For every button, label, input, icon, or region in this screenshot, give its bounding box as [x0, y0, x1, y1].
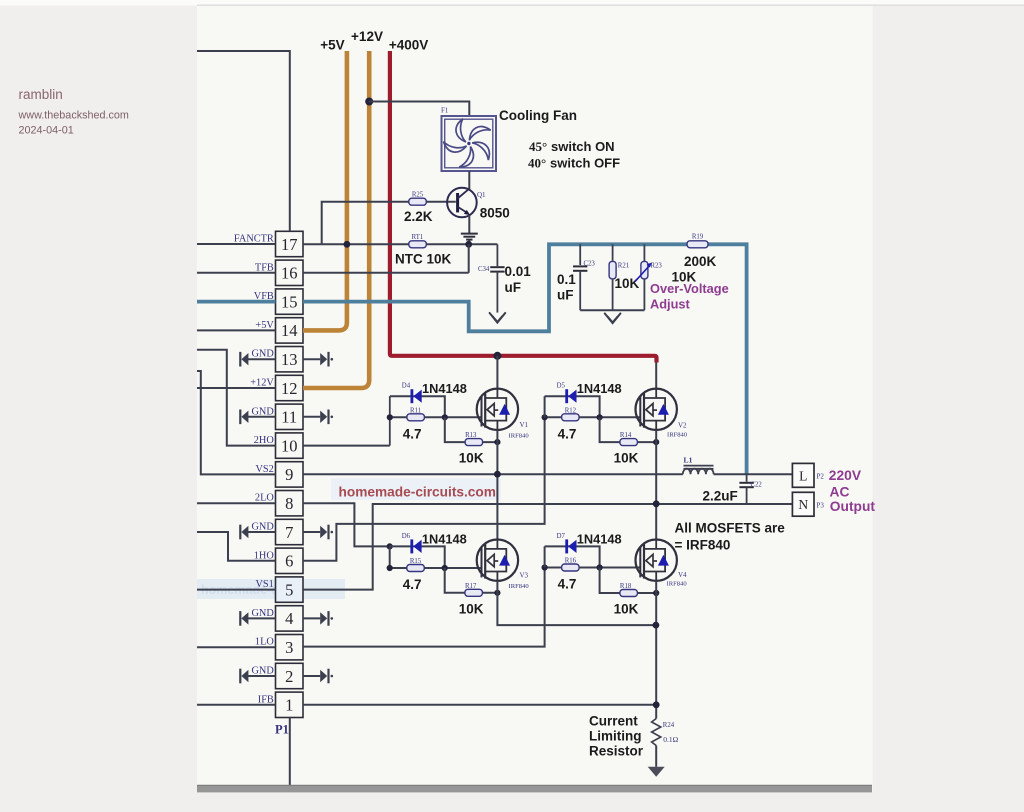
svg-text:V1: V1 — [520, 421, 529, 429]
svg-text:40°: 40° — [528, 156, 546, 171]
wire +12V rail — [303, 51, 369, 388]
svg-text:homemade-circuits.com: homemade-circuits.com — [339, 485, 496, 500]
svg-text:6: 6 — [285, 552, 293, 571]
svg-text:C34: C34 — [478, 266, 490, 273]
svg-text:R13: R13 — [465, 432, 477, 439]
svg-text:switch ON: switch ON — [551, 139, 615, 154]
svg-text:200K: 200K — [684, 254, 717, 269]
capacitor C23 — [573, 244, 587, 310]
wire D6 branch — [390, 546, 445, 568]
svg-text:2LO: 2LO — [255, 493, 274, 504]
wire D5 branch — [545, 396, 600, 417]
mosfet V4 IRF840 — [636, 540, 677, 581]
svg-text:R15: R15 — [410, 558, 422, 565]
wire fan feed — [369, 102, 469, 117]
wire N rail — [303, 504, 792, 590]
mosfet V3 IRF840 — [477, 540, 518, 581]
resistor R17 10K — [465, 589, 483, 596]
wire FANCTR to RT1 — [322, 243, 409, 245]
wire R18 branch — [600, 568, 657, 594]
svg-text:5: 5 — [285, 580, 293, 599]
svg-text:R12: R12 — [565, 407, 577, 414]
svg-text:F1: F1 — [441, 107, 449, 115]
svg-text:+12V: +12V — [250, 378, 274, 389]
wire R25 to Q1 base — [426, 201, 456, 203]
svg-text:FANCTR: FANCTR — [234, 234, 274, 245]
svg-text:17: 17 — [281, 235, 298, 254]
wire V2 drain — [655, 362, 657, 389]
svg-text:11: 11 — [281, 408, 297, 427]
resistor R18 10K — [620, 590, 638, 597]
wire R24 to ground — [655, 746, 657, 767]
svg-text:Limiting: Limiting — [589, 729, 642, 744]
mosfet V1 IRF840 — [477, 389, 518, 430]
junction +400V to V1 drain — [493, 352, 501, 360]
junction +12V to fan — [365, 98, 373, 106]
junction IFB shunt — [653, 701, 660, 708]
wire V4 lv top — [544, 546, 546, 567]
ground Q1 emitter — [461, 234, 478, 240]
junction R18 source — [653, 590, 659, 596]
watermark band website — [331, 479, 501, 501]
svg-text:10K: 10K — [615, 276, 640, 291]
svg-text:8: 8 — [285, 494, 293, 513]
svg-text:All MOSFETS are: All MOSFETS are — [675, 521, 786, 536]
svg-text:Output: Output — [830, 499, 876, 514]
diode D4 1N4148 — [411, 389, 422, 403]
svg-text:D6: D6 — [402, 533, 411, 540]
inductor L1 — [683, 466, 714, 475]
wire V1 source — [496, 430, 498, 474]
ground pin2 left arrow — [239, 666, 275, 684]
svg-text:+12V: +12V — [351, 29, 383, 44]
resistor R21 — [612, 244, 614, 262]
svg-text:P1: P1 — [275, 723, 289, 737]
svg-text:L1: L1 — [684, 456, 693, 465]
svg-text:R11: R11 — [410, 407, 421, 414]
svg-text:Over-Voltage: Over-Voltage — [650, 281, 729, 296]
svg-text:R14: R14 — [620, 432, 632, 439]
svg-text:14: 14 — [281, 321, 298, 340]
diode D5 1N4148 — [565, 389, 576, 403]
svg-text:D4: D4 — [402, 383, 411, 390]
svg-text:Cooling Fan: Cooling Fan — [499, 108, 577, 123]
resistor R24 zigzag — [652, 719, 661, 746]
junction V2 source / V4 drain — [653, 500, 660, 507]
junction R15 right — [442, 565, 448, 571]
svg-text:1N4148: 1N4148 — [422, 531, 467, 546]
svg-text:P2: P2 — [817, 473, 825, 481]
svg-text:IFB: IFB — [258, 694, 274, 705]
resistor R11 4.7 — [407, 414, 425, 421]
svg-text:7: 7 — [285, 523, 293, 542]
svg-text:+5V: +5V — [320, 38, 344, 53]
svg-text:2.2uF: 2.2uF — [703, 489, 738, 504]
svg-text:0.01: 0.01 — [505, 264, 532, 279]
wire V3 lv — [389, 546, 391, 568]
junction sources join — [653, 622, 660, 629]
wire VFB blue loop — [303, 244, 747, 474]
junction R14 source — [653, 439, 659, 445]
svg-text:1N4148: 1N4148 — [577, 381, 622, 396]
svg-text:12: 12 — [281, 379, 298, 398]
svg-text:15: 15 — [281, 292, 298, 311]
svg-text:4.7: 4.7 — [558, 426, 577, 441]
capacitor C34 — [490, 244, 504, 312]
junction R13 source — [494, 439, 500, 445]
connector P1 pin numbers — [281, 235, 298, 715]
wire L1 to L terminal — [714, 473, 793, 475]
wire pin3 stub — [197, 646, 276, 648]
svg-text:L: L — [799, 468, 807, 483]
svg-text:IRF840: IRF840 — [667, 581, 688, 588]
svg-text:V4: V4 — [678, 571, 687, 579]
wire +400V rail — [390, 51, 657, 363]
svg-text:VS1: VS1 — [255, 579, 273, 590]
svg-text:D7: D7 — [557, 533, 566, 540]
wire 1LO to gate V4 — [303, 568, 545, 647]
svg-text:+400V: +400V — [389, 38, 428, 53]
svg-text:10: 10 — [281, 436, 298, 455]
wire D7 branch — [545, 546, 600, 567]
svg-text:R24: R24 — [663, 722, 675, 729]
svg-text:2HO: 2HO — [254, 435, 275, 446]
wire gate line R16 — [545, 567, 641, 569]
ground pin13 left arrow — [239, 349, 275, 367]
resistor R19 — [687, 241, 708, 248]
svg-text:C23: C23 — [584, 261, 596, 268]
wire gate line R11 — [390, 416, 482, 418]
svg-text:2.2K: 2.2K — [404, 209, 433, 224]
svg-text:10K: 10K — [459, 601, 484, 616]
ground pin11 right arrow — [303, 410, 333, 425]
wire Q1 emitter down — [468, 215, 470, 233]
resistor R14 10K — [620, 439, 638, 446]
wire 2HO route from left — [197, 350, 276, 446]
watermark band pin5 row — [197, 579, 345, 599]
svg-text:10K: 10K — [614, 602, 639, 617]
diode D6 1N4148 — [410, 539, 421, 553]
wire V4 drain — [655, 504, 657, 540]
diode D7 1N4148 — [565, 539, 576, 553]
ground pin11 left arrow — [239, 406, 275, 424]
svg-text:16: 16 — [281, 264, 298, 283]
svg-text:uF: uF — [505, 280, 522, 295]
terminal L P2 — [792, 463, 814, 487]
wire VS2 rail — [303, 473, 683, 475]
wire pin17 stub — [197, 243, 276, 245]
svg-text:R18: R18 — [620, 583, 632, 590]
svg-text:Adjust: Adjust — [650, 297, 691, 312]
svg-text:TFB: TFB — [255, 262, 274, 273]
svg-text:Q1: Q1 — [477, 191, 486, 199]
svg-text:GND: GND — [251, 349, 274, 360]
svg-text:GND: GND — [251, 522, 274, 533]
svg-text:RT1: RT1 — [412, 234, 424, 241]
svg-text:IRF840: IRF840 — [509, 583, 530, 590]
wire VS2 route from left — [197, 371, 276, 474]
wire D4 branch — [390, 396, 445, 417]
svg-text:www.thebackshed.com: www.thebackshed.com — [18, 110, 129, 122]
svg-text:IRF840: IRF840 — [667, 432, 688, 439]
resistor R15 4.7 — [407, 565, 425, 572]
svg-text:Current: Current — [589, 714, 638, 729]
fan F1 — [441, 116, 496, 171]
wire pin15 VFB stub (blue) — [197, 300, 276, 304]
svg-text:D5: D5 — [557, 383, 566, 390]
wire pin14 stub — [197, 329, 276, 331]
wire V3 source — [497, 581, 656, 625]
thermistor RT1 — [409, 241, 427, 248]
wire pin16 stub — [197, 272, 276, 274]
svg-text:4: 4 — [285, 609, 293, 628]
wire pin12 stub — [197, 387, 276, 389]
svg-text:1: 1 — [285, 696, 293, 715]
svg-text:4.7: 4.7 — [558, 577, 577, 592]
svg-text:2024-04-01: 2024-04-01 — [19, 125, 74, 137]
junction R12 left — [542, 414, 548, 420]
svg-text:1HO: 1HO — [254, 550, 275, 561]
junction R16 left — [542, 564, 548, 570]
resistor R16 4.7 — [562, 564, 580, 571]
junction R11 left — [387, 414, 393, 420]
wire R17 branch — [445, 568, 498, 593]
svg-text:1N4148: 1N4148 — [422, 381, 467, 396]
svg-text:0.1: 0.1 — [557, 272, 576, 287]
ground C34 — [490, 313, 506, 322]
svg-text:GND: GND — [251, 608, 274, 619]
svg-text:220V: 220V — [829, 468, 862, 483]
svg-text:= IRF840: = IRF840 — [675, 538, 731, 553]
wire OV bottom — [580, 309, 644, 311]
junction V1 source / V3 drain — [494, 471, 501, 478]
svg-text:V3: V3 — [520, 572, 529, 580]
ground pin4 left arrow — [239, 608, 275, 626]
svg-text:R19: R19 — [692, 234, 704, 241]
junction R12 right — [597, 414, 603, 420]
svg-text:R16: R16 — [565, 558, 577, 565]
wire R13 branch — [445, 417, 498, 442]
svg-text:1LO: 1LO — [255, 637, 274, 648]
svg-text:GND: GND — [251, 666, 274, 677]
potentiometer R23 — [643, 244, 645, 262]
wire IFB — [303, 704, 656, 706]
svg-text:NTC 10K: NTC 10K — [395, 252, 452, 267]
junction R16 right — [597, 564, 603, 570]
svg-text:10K: 10K — [459, 451, 484, 466]
junction R11 right — [442, 414, 448, 420]
resistor R12 4.7 — [562, 414, 580, 421]
svg-text:0.1Ω: 0.1Ω — [663, 735, 678, 744]
svg-text:VS2: VS2 — [255, 464, 273, 475]
svg-text:AC: AC — [830, 485, 850, 500]
wire V3 drain — [496, 474, 498, 539]
wire P1 tail below connector — [289, 718, 291, 786]
svg-text:3: 3 — [285, 638, 293, 657]
mosfet V2 IRF840 — [636, 389, 677, 430]
ground pin2 right arrow — [303, 669, 333, 684]
wire V4 source — [655, 581, 657, 719]
svg-text:45°: 45° — [529, 139, 547, 154]
svg-text:R17: R17 — [465, 583, 477, 590]
svg-text:4.7: 4.7 — [403, 426, 422, 441]
ground pin7 right arrow — [303, 525, 333, 540]
svg-text:R21: R21 — [618, 263, 629, 270]
svg-text:4.7: 4.7 — [403, 577, 422, 592]
bottom scrollbar — [197, 785, 872, 792]
wire pin5 stub — [197, 589, 276, 591]
svg-text:VFB: VFB — [254, 291, 274, 302]
wire pin8 stub — [197, 502, 276, 504]
wire TFB riser — [468, 244, 470, 272]
wire top-left to connector top — [197, 51, 290, 231]
svg-text:13: 13 — [281, 350, 298, 369]
svg-text:R23: R23 — [651, 263, 663, 270]
junction emitter/TFB node — [465, 241, 472, 248]
terminal N P3 — [792, 492, 814, 516]
wire gate line R12 — [545, 416, 641, 418]
resistor R13 10K — [465, 439, 483, 446]
wire fan to Q1 — [468, 171, 470, 189]
svg-text:1N4148: 1N4148 — [577, 531, 622, 546]
wire V2 source — [655, 430, 657, 504]
svg-text:2: 2 — [285, 667, 293, 686]
ground OV — [605, 314, 621, 323]
resistor R25 — [409, 198, 427, 205]
wire RT1 to C34 — [426, 243, 497, 245]
wire 1HO to gate V2 — [303, 417, 545, 561]
svg-text:8050: 8050 — [480, 206, 510, 221]
ground pin7 left arrow — [239, 522, 275, 540]
ground shunt — [648, 767, 665, 777]
junction R17 source — [494, 590, 500, 596]
svg-text:IRF840: IRF840 — [509, 433, 530, 440]
svg-text:C22: C22 — [751, 482, 763, 489]
wire pin1 stub — [197, 704, 276, 706]
wire FANCTR riser — [303, 243, 322, 245]
svg-text:N: N — [798, 497, 808, 512]
junction 2LO gate node — [387, 543, 393, 549]
wire V2 gate vert — [544, 396, 546, 417]
svg-text:+5V: +5V — [255, 320, 274, 331]
svg-text:Resistor: Resistor — [589, 744, 644, 759]
wire 1HO route from left — [197, 532, 276, 561]
svg-text:uF: uF — [557, 288, 574, 303]
wire V1 drain — [496, 356, 498, 389]
junction +5V/FANCTR — [344, 241, 351, 248]
transistor Q1 — [447, 188, 477, 218]
wire gate line R15 — [390, 567, 482, 569]
svg-text:switch OFF: switch OFF — [550, 156, 620, 171]
wire R14 branch — [600, 417, 657, 442]
svg-text:GND: GND — [251, 406, 274, 417]
wire +5V rail — [303, 51, 347, 330]
connector P1 pin boxes 1-17 — [276, 231, 304, 717]
junction R15 left — [387, 565, 393, 571]
wire 2HO to gate V1 — [303, 445, 390, 447]
wire 2LO to gate V3 — [303, 503, 390, 546]
svg-text:R25: R25 — [412, 192, 424, 199]
capacitor C22 — [739, 474, 753, 504]
ground pin13 right arrow — [303, 352, 333, 367]
svg-text:10K: 10K — [614, 451, 639, 466]
svg-text:P3: P3 — [817, 502, 825, 510]
svg-text:ramblin: ramblin — [19, 87, 63, 102]
ground pin4 right arrow — [303, 611, 333, 626]
svg-text:V2: V2 — [678, 422, 687, 430]
svg-text:9: 9 — [285, 465, 293, 484]
